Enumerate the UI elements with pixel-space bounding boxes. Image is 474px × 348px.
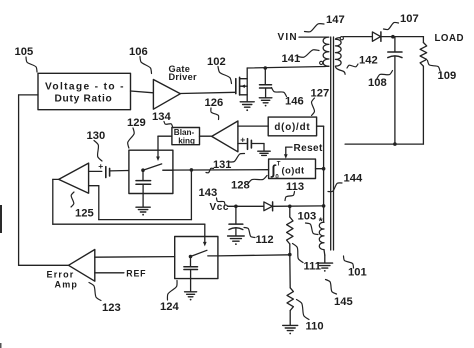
node: integrator output junction: [322, 167, 326, 171]
label 125: [75, 208, 94, 220]
wire: integrator output to sense bus: [316, 168, 324, 170]
wire 131: sampled signal to integrator: [163, 169, 269, 171]
wire: drain node to transformer primary: [247, 67, 325, 69]
label 113: [286, 181, 304, 193]
leader for 113: [285, 192, 295, 201]
label 123: [102, 302, 121, 314]
ground under C146: [259, 98, 272, 107]
label 128: [231, 180, 250, 192]
label 127: [311, 88, 330, 100]
wire: error amp input: [95, 256, 175, 259]
label 147: [326, 14, 345, 26]
node: snubber tap junction: [264, 66, 268, 70]
wire: left bus vertical: [18, 95, 20, 265]
ground under R110: [283, 325, 298, 334]
label 143: [199, 187, 218, 199]
resistor R110: [287, 255, 293, 325]
label 112: [256, 234, 274, 246]
leader for 141: [298, 50, 319, 58]
label 108: [368, 77, 387, 89]
wire: U125 output run: [53, 179, 59, 224]
svg-text:127: 127: [311, 88, 330, 100]
label REF: [126, 268, 146, 278]
wire: secondary return bottom: [345, 143, 423, 145]
label Error Amp: [47, 269, 79, 289]
svg-text:145: 145: [334, 296, 353, 308]
svg-text:144: 144: [344, 173, 363, 185]
edge artifact: [0, 205, 2, 348]
wire: Vcc to diode 113: [228, 205, 264, 207]
node: R111 top junction: [288, 205, 292, 209]
svg-text:130: 130: [87, 130, 106, 142]
svg-text:+: +: [98, 161, 103, 171]
svg-text:(o)dt: (o)dt: [282, 165, 305, 175]
svg-text:T: T: [277, 162, 281, 168]
label Vcc: [210, 202, 230, 213]
label 110: [306, 321, 324, 333]
diode D107: [372, 32, 381, 41]
wire: comparator output to blanking: [200, 135, 212, 137]
svg-text:Voltage - to -: Voltage - to -: [45, 82, 125, 93]
leader for 142: [347, 64, 358, 68]
label 107: [400, 13, 419, 25]
label 134: [152, 111, 171, 123]
ground under winding 103: [317, 263, 333, 272]
wire: secondary top to diode 107: [344, 36, 373, 38]
arrow into switch 124: [203, 224, 207, 246]
capacitor threshold at comparator: [238, 135, 264, 151]
leader for 105: [26, 57, 37, 72]
capacitor inside 124: [184, 257, 198, 292]
leader for 125: [71, 192, 74, 207]
node: divider junction: [288, 253, 292, 257]
wire: box105 left to left bus: [19, 94, 38, 96]
leader for 144: [328, 183, 342, 192]
phase dot of primary 141: [320, 61, 323, 64]
svg-text:+: +: [240, 135, 245, 145]
node: junction on wire 131: [190, 168, 194, 172]
leader for 103: [306, 223, 319, 235]
leader for 112: [244, 228, 255, 238]
svg-text:103: 103: [298, 211, 317, 223]
block 128 integrator: [269, 159, 316, 181]
ground under 129: [136, 207, 150, 215]
label 124: [160, 301, 179, 313]
transformer primary winding 141: [323, 37, 329, 66]
svg-text:146: 146: [285, 96, 304, 108]
leader for 143: [217, 198, 226, 205]
svg-text:111: 111: [304, 261, 321, 273]
leader for 124: [167, 281, 177, 301]
wire: d/dt output to comparator input: [238, 125, 268, 127]
label 109: [438, 70, 457, 82]
leader for 109: [428, 61, 441, 72]
ground under Q102: [240, 102, 254, 111]
wire: diode 113 to sense bus: [273, 205, 324, 207]
leader for 111: [293, 244, 304, 263]
label 126: [205, 97, 224, 109]
leader for 134: [164, 122, 173, 127]
phase dot of secondary 142: [340, 37, 343, 40]
label 144: [344, 173, 363, 185]
auxiliary winding 103: [319, 222, 325, 262]
svg-text:147: 147: [326, 14, 345, 26]
label Gate Driver: [169, 64, 197, 82]
wire: U125 feedback loop: [89, 170, 192, 220]
diode D113: [264, 202, 273, 211]
node: output junction: [391, 35, 395, 39]
op-amp U125: [59, 163, 89, 193]
leader for 126: [211, 108, 219, 120]
svg-text:142: 142: [359, 55, 378, 67]
svg-text:VIN: VIN: [278, 32, 298, 43]
leader for 102: [218, 67, 232, 84]
arrow into switch 129: [156, 157, 160, 162]
transistor Q102 MOSFET: [236, 68, 247, 101]
svg-text:143: 143: [199, 187, 218, 199]
wire: blanking to switch 129: [158, 136, 172, 157]
leader for 147: [305, 24, 325, 32]
leader for 101: [344, 256, 354, 268]
svg-text:Vcc: Vcc: [210, 202, 230, 213]
svg-text:123: 123: [102, 302, 121, 314]
block 127 d/dt derivative: [268, 117, 316, 136]
node: Vcc junction: [234, 205, 238, 209]
svg-text:134: 134: [152, 111, 171, 123]
label 146: [285, 96, 304, 108]
wire: REF input: [95, 272, 124, 274]
svg-text:141: 141: [282, 53, 301, 65]
leader for 108: [377, 71, 393, 79]
svg-text:Driver: Driver: [169, 72, 197, 82]
svg-text:Amp: Amp: [55, 279, 79, 289]
capacitor C130 coupling: [89, 161, 129, 177]
wire: diode cathode to load top: [381, 36, 424, 38]
svg-text:128: 128: [231, 180, 250, 192]
svg-text:124: 124: [160, 301, 179, 313]
svg-text:d(o)/dt: d(o)/dt: [274, 122, 310, 133]
wire: VIN to primary: [299, 36, 326, 38]
svg-text:109: 109: [438, 70, 457, 82]
svg-text:129: 129: [127, 117, 146, 129]
label 145: [334, 296, 353, 308]
svg-text:king: king: [178, 136, 195, 145]
svg-text:Error: Error: [47, 269, 75, 279]
leader for 146: [272, 88, 287, 97]
svg-text:110: 110: [306, 321, 324, 333]
leader near comparator: [230, 153, 245, 162]
svg-text:*: *: [319, 216, 324, 228]
comparator U126: [212, 121, 238, 152]
op-amp U123 error amplifier: [69, 250, 95, 282]
wire: box105 output to gate driver: [131, 91, 154, 93]
reset input of integrator: [284, 143, 323, 159]
label 103: [298, 211, 317, 223]
leader for 131: [206, 168, 214, 173]
svg-text:131: 131: [213, 159, 231, 171]
ground under C112: [228, 236, 245, 245]
capacitor C108 output filter: [388, 37, 402, 144]
label 131: [213, 159, 231, 171]
capacitor C112 bypass: [229, 206, 243, 235]
leader for 130: [94, 141, 102, 162]
block 134 blanking: [172, 128, 200, 146]
ground under 124: [185, 292, 197, 301]
leader for 110: [297, 300, 310, 320]
svg-text:107: 107: [400, 13, 419, 25]
label LOAD: [435, 33, 464, 44]
svg-text:125: 125: [75, 208, 94, 220]
wire: U125 output to switch 124: [53, 223, 205, 225]
transformer core 144: [331, 37, 334, 250]
leader for 123: [89, 283, 101, 301]
switch box 124 sample-and-hold: [175, 237, 218, 279]
label 111: [304, 261, 321, 273]
leader for 145: [326, 280, 337, 295]
resistor R111: [287, 206, 293, 255]
node: bottom junction: [393, 142, 397, 146]
leader for 127: [312, 98, 315, 116]
svg-text:105: 105: [15, 46, 34, 58]
wire: switch 124 output: [218, 255, 290, 256]
transformer secondary winding 142: [335, 38, 345, 75]
label 102: [207, 56, 226, 68]
leader for 128: [248, 176, 267, 184]
svg-text:Reset: Reset: [294, 143, 324, 154]
wire: error amp output to left bus: [19, 264, 69, 266]
svg-text:Duty Ratio: Duty Ratio: [55, 94, 113, 105]
svg-text:LOAD: LOAD: [435, 33, 464, 44]
svg-text:126: 126: [205, 97, 224, 109]
wire: gate driver output to Q102 gate: [180, 92, 235, 93]
ground under comparator capacitor: [258, 151, 270, 155]
label 129: [127, 117, 146, 129]
svg-text:112: 112: [256, 234, 274, 246]
leader for 107: [384, 22, 399, 29]
node: sense bus junction: [322, 204, 326, 208]
phase mark of winding 103: [319, 216, 324, 228]
svg-text:102: 102: [207, 56, 226, 68]
label VIN: [278, 32, 298, 43]
svg-text:113: 113: [286, 181, 304, 193]
label 105: [15, 46, 34, 58]
label 101: [348, 267, 367, 279]
svg-text:REF: REF: [126, 268, 146, 278]
wire: d/dt input from sense bus: [317, 125, 324, 127]
switch box 129 sample-and-hold: [129, 150, 173, 193]
label 130: [87, 130, 106, 142]
op-amp U106 gate driver triangle: [153, 80, 180, 110]
capacitor inside 129: [136, 170, 151, 207]
block 105 voltage-to-duty-ratio converter: [38, 73, 131, 109]
label 142: [359, 55, 378, 67]
svg-text:101: 101: [348, 267, 367, 279]
svg-text:0: 0: [275, 175, 279, 181]
resistor R109 load: [420, 37, 427, 145]
label 141: [282, 53, 301, 65]
capacitor C146 snubber: [260, 68, 272, 97]
leader for 106: [140, 57, 152, 74]
leader for 129: [128, 128, 135, 148]
label 106: [129, 46, 148, 58]
svg-text:106: 106: [129, 46, 148, 58]
wire: sense bus vertical: [323, 126, 325, 222]
